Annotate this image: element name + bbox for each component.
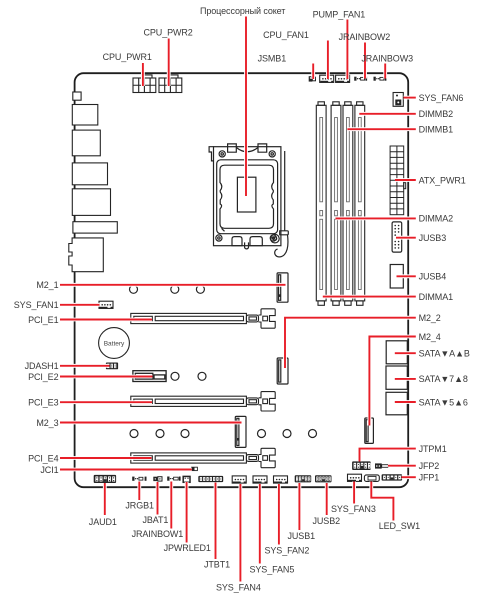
svg-text:JAUD1: JAUD1 xyxy=(89,517,117,527)
svg-text:JFP2: JFP2 xyxy=(419,461,440,471)
svg-text:DIMMB1: DIMMB1 xyxy=(419,125,453,135)
svg-text:SYS_FAN1: SYS_FAN1 xyxy=(14,300,59,310)
svg-text:SATA▼7▲8: SATA▼7▲8 xyxy=(419,374,468,384)
svg-text:ATX_PWR1: ATX_PWR1 xyxy=(419,175,466,185)
svg-text:JRAINBOW2: JRAINBOW2 xyxy=(339,32,391,42)
svg-text:SYS_FAN6: SYS_FAN6 xyxy=(419,93,464,103)
svg-text:SYS_FAN3: SYS_FAN3 xyxy=(331,504,376,514)
svg-text:JRGB1: JRGB1 xyxy=(125,501,154,511)
svg-text:SYS_FAN5: SYS_FAN5 xyxy=(250,565,295,575)
svg-text:SYS_FAN4: SYS_FAN4 xyxy=(216,583,261,593)
svg-text:M2_2: M2_2 xyxy=(419,313,441,323)
svg-text:LED_SW1: LED_SW1 xyxy=(379,521,420,531)
svg-text:CPU_FAN1: CPU_FAN1 xyxy=(263,30,309,40)
svg-text:JDASH1: JDASH1 xyxy=(25,361,59,371)
svg-text:M2_1: M2_1 xyxy=(36,280,58,290)
svg-text:JFP1: JFP1 xyxy=(419,473,440,483)
svg-text:JUSB1: JUSB1 xyxy=(288,531,316,541)
svg-text:JCI1: JCI1 xyxy=(40,465,58,475)
svg-text:M2_3: M2_3 xyxy=(36,418,58,428)
svg-text:SATA▼A▲B: SATA▼A▲B xyxy=(419,349,470,359)
svg-text:DIMMB2: DIMMB2 xyxy=(419,109,453,119)
svg-text:PCI_E3: PCI_E3 xyxy=(28,398,59,408)
svg-text:PUMP_FAN1: PUMP_FAN1 xyxy=(313,9,366,19)
svg-text:JUSB4: JUSB4 xyxy=(419,272,447,282)
svg-text:Процессорный сокет: Процессорный сокет xyxy=(200,6,285,16)
svg-text:JRAINBOW3: JRAINBOW3 xyxy=(361,53,413,63)
svg-text:DIMMA2: DIMMA2 xyxy=(419,214,453,224)
svg-text:JPWRLED1: JPWRLED1 xyxy=(164,543,211,553)
svg-text:PCI_E4: PCI_E4 xyxy=(28,453,59,463)
svg-text:JBAT1: JBAT1 xyxy=(143,515,169,525)
svg-text:M2_4: M2_4 xyxy=(419,332,441,342)
svg-text:PCI_E2: PCI_E2 xyxy=(28,372,59,382)
svg-text:JSMB1: JSMB1 xyxy=(258,53,287,63)
svg-text:DIMMA1: DIMMA1 xyxy=(419,292,453,302)
svg-text:PCI_E1: PCI_E1 xyxy=(28,315,59,325)
svg-text:JTBT1: JTBT1 xyxy=(204,560,230,570)
svg-text:JUSB2: JUSB2 xyxy=(313,516,341,526)
svg-text:CPU_PWR1: CPU_PWR1 xyxy=(103,52,152,62)
svg-text:CPU_PWR2: CPU_PWR2 xyxy=(144,27,193,37)
svg-text:JTPM1: JTPM1 xyxy=(419,444,447,454)
svg-text:JRAINBOW1: JRAINBOW1 xyxy=(132,529,184,539)
svg-text:SATA▼5▲6: SATA▼5▲6 xyxy=(419,397,468,407)
svg-text:SYS_FAN2: SYS_FAN2 xyxy=(265,546,310,556)
svg-text:JUSB3: JUSB3 xyxy=(419,233,447,243)
svg-text:Battery: Battery xyxy=(104,341,125,348)
